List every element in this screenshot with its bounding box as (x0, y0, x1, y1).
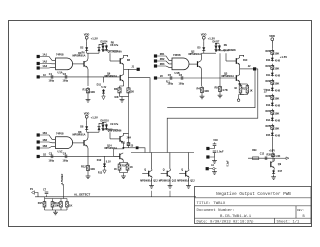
svg-text:10K: 10K (274, 111, 279, 115)
svg-text:4148: 4148 (275, 59, 281, 62)
svg-text:10K: 10K (274, 51, 279, 55)
svg-text:4148: 4148 (275, 119, 281, 122)
svg-text:C3: C3 (49, 151, 53, 155)
svg-text:R23: R23 (265, 94, 270, 98)
svg-text:10K: 10K (274, 81, 279, 85)
svg-text:C1: C1 (49, 72, 53, 76)
svg-text:D14: D14 (266, 119, 271, 122)
svg-text:1C: 1C (43, 74, 46, 77)
svg-text:1B1: 1B1 (42, 131, 47, 135)
svg-text:1.0K: 1.0K (275, 156, 280, 158)
svg-text:C9 47u: C9 47u (110, 123, 119, 126)
svg-text:VCC: VCC (213, 140, 218, 142)
svg-text:C12: C12 (260, 154, 265, 156)
svg-text:B-CB-TWB1-W-1: B-CB-TWB1-W-1 (220, 215, 252, 219)
svg-text:R16: R16 (54, 201, 59, 205)
svg-text:1K: 1K (69, 204, 72, 208)
svg-text:MPS6601A: MPS6601A (140, 180, 152, 183)
svg-text:VDD: VDD (84, 112, 90, 116)
svg-text:R5: R5 (215, 86, 219, 90)
svg-text:+0.7V: +0.7V (269, 150, 276, 152)
svg-text:D15: D15 (266, 135, 271, 137)
svg-text:Date: 9/30/2013 02:18:37p: Date: 9/30/2013 02:18:37p (197, 220, 255, 225)
svg-text:D12: D12 (97, 159, 102, 162)
svg-text:1B3: 1B3 (42, 144, 47, 148)
svg-text:MPS6601A: MPS6601A (159, 180, 171, 183)
svg-text:R12: R12 (81, 165, 86, 169)
svg-text:R10: R10 (243, 60, 248, 62)
svg-text:4148: 4148 (275, 134, 281, 137)
svg-text:1.0uF: 1.0uF (217, 150, 224, 154)
svg-text:MPS6601A: MPS6601A (189, 53, 202, 56)
svg-text:D12: D12 (266, 90, 271, 92)
svg-text:2C: 2C (160, 75, 163, 78)
svg-text:74F08: 74F08 (173, 53, 181, 57)
svg-text:+1.5V: +1.5V (280, 55, 287, 59)
svg-text:C4: C4 (63, 151, 67, 155)
svg-text:Sheet: 1/1: Sheet: 1/1 (277, 220, 301, 225)
svg-text:R14: R14 (122, 164, 127, 167)
svg-text:1K: 1K (250, 91, 253, 93)
svg-text:VDD: VDD (201, 33, 207, 37)
svg-text:10K: 10K (114, 96, 119, 99)
svg-text:2B2: 2B2 (160, 57, 165, 61)
svg-text:2N4: 2N4 (127, 136, 132, 139)
svg-text:1K: 1K (234, 88, 237, 90)
svg-text:5.1V: 5.1V (106, 160, 111, 163)
svg-text:C8 47u: C8 47u (110, 44, 119, 47)
svg-text:4148: 4148 (275, 89, 281, 92)
svg-text:1D: 1D (43, 153, 46, 156)
svg-text:TITLE: TWBLX: TITLE: TWBLX (197, 202, 226, 206)
svg-text:R15: R15 (38, 201, 43, 205)
svg-text:4148: 4148 (275, 104, 281, 107)
svg-text:4.7K: 4.7K (222, 88, 228, 92)
svg-text:1K: 1K (130, 167, 133, 169)
svg-text:R22: R22 (265, 79, 270, 83)
svg-text:R24: R24 (265, 109, 270, 113)
svg-text:D6 D7: D6 D7 (213, 41, 221, 44)
svg-text:10K: 10K (274, 66, 279, 70)
svg-text:74F08: 74F08 (56, 53, 64, 57)
svg-text:R21: R21 (265, 64, 270, 68)
svg-text:R13: R13 (98, 173, 103, 175)
svg-text:Document Number:: Document Number: (197, 208, 235, 213)
svg-text:100p: 100p (63, 160, 69, 163)
svg-text:100p: 100p (49, 160, 55, 163)
svg-text:REV:: REV: (297, 209, 304, 212)
svg-text:MPS6601A: MPS6601A (222, 75, 235, 78)
svg-text:D3 D4: D3 D4 (101, 41, 109, 44)
svg-text:2B1: 2B1 (160, 52, 165, 56)
svg-text:C5: C5 (168, 73, 172, 77)
svg-text:R20: R20 (265, 49, 270, 53)
svg-text:10K: 10K (274, 126, 279, 130)
svg-text:R25: R25 (265, 124, 270, 128)
svg-text:AL_DETECT: AL_DETECT (74, 192, 91, 196)
svg-text:+1.5VREF: +1.5VREF (60, 173, 64, 185)
svg-text:Q12: Q12 (153, 181, 158, 183)
svg-text:1A1: 1A1 (42, 53, 47, 57)
svg-text:R17: R17 (242, 88, 247, 90)
svg-text:10K: 10K (90, 90, 95, 94)
svg-text:10K: 10K (90, 167, 95, 171)
svg-text:R1: R1 (83, 87, 87, 91)
svg-text:VDD: VDD (269, 34, 275, 38)
svg-text:D10: D10 (266, 60, 271, 62)
svg-text:74F08: 74F08 (56, 132, 64, 136)
svg-text:MPS6601A: MPS6601A (177, 180, 189, 183)
svg-text:R29: R29 (252, 150, 257, 152)
svg-text:D11: D11 (266, 75, 271, 77)
svg-text:Q7 2N3906: Q7 2N3906 (223, 49, 236, 52)
svg-text:100p: 100p (49, 80, 55, 83)
svg-text:10K: 10K (204, 89, 209, 93)
svg-text:100p: 100p (179, 83, 185, 86)
svg-text:Q: Q (163, 170, 165, 172)
svg-text:5.1V: 5.1V (101, 86, 106, 89)
svg-text:Q: Q (144, 170, 146, 172)
svg-text:MPS6601A: MPS6601A (105, 75, 118, 78)
svg-text:Q12: Q12 (172, 181, 177, 183)
svg-text:C6: C6 (179, 73, 183, 77)
svg-text:2B3: 2B3 (160, 62, 165, 66)
svg-text:Q12: Q12 (190, 181, 195, 183)
svg-text:0.1uF: 0.1uF (228, 160, 230, 167)
svg-text:Q: Q (181, 170, 183, 172)
svg-text:Negative Output Converter PWB: Negative Output Converter PWB (216, 192, 291, 197)
svg-text:4148: 4148 (275, 74, 281, 77)
svg-text:D13: D13 (266, 105, 271, 107)
svg-text:100p: 100p (63, 80, 69, 83)
svg-text:+1.2V: +1.2V (91, 116, 98, 120)
svg-text:D9 D10: D9 D10 (101, 120, 110, 123)
svg-text:R4: R4 (197, 87, 201, 91)
svg-text:MPS6601A: MPS6601A (73, 133, 86, 137)
svg-text:+1.2V: +1.2V (91, 37, 98, 41)
svg-text:1B2: 1B2 (42, 138, 47, 142)
svg-text:R3: R3 (114, 87, 118, 91)
svg-text:1K: 1K (114, 169, 117, 171)
svg-text:C2: C2 (63, 72, 67, 76)
svg-text:10K: 10K (274, 96, 279, 100)
svg-text:1A2: 1A2 (42, 60, 47, 64)
svg-text:1A3: 1A3 (42, 64, 47, 68)
svg-text:D17: D17 (278, 171, 283, 173)
svg-text:1K: 1K (131, 90, 134, 94)
svg-text:R28: R28 (267, 155, 272, 157)
svg-text:VDD: VDD (84, 33, 90, 37)
